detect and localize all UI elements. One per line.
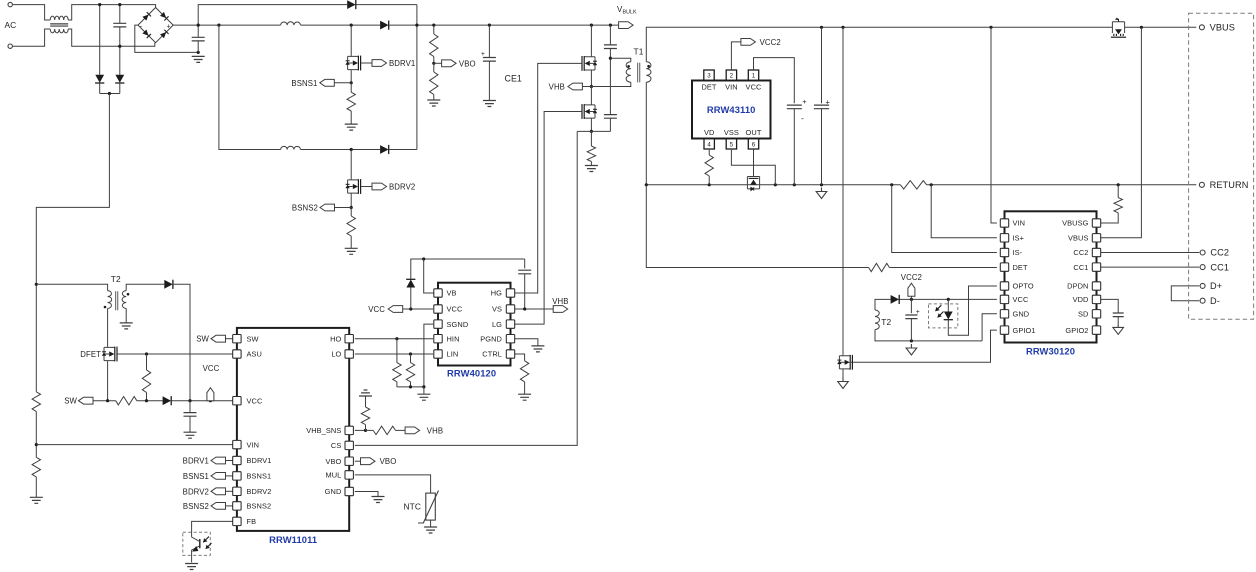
svg-text:HIN: HIN: [447, 334, 460, 343]
svg-text:FB: FB: [247, 517, 257, 526]
svg-text:BDRV1: BDRV1: [389, 59, 415, 68]
svg-text:DET: DET: [1013, 263, 1028, 272]
svg-text:T2: T2: [111, 274, 121, 284]
svg-text:-: -: [801, 113, 804, 123]
svg-text:+: +: [166, 23, 170, 30]
svg-text:CC1: CC1: [1073, 263, 1088, 272]
svg-text:OPTO: OPTO: [1013, 282, 1034, 291]
svg-text:NTC: NTC: [403, 502, 421, 512]
svg-text:SW: SW: [64, 397, 77, 406]
svg-text:VB: VB: [447, 289, 457, 298]
svg-text:VBUS: VBUS: [1210, 23, 1235, 33]
svg-text:AC: AC: [5, 20, 17, 30]
svg-text:VHB_SNS: VHB_SNS: [306, 426, 341, 435]
svg-text:BDRV1: BDRV1: [183, 457, 209, 466]
svg-text:CC2: CC2: [1073, 248, 1088, 257]
svg-text:VS: VS: [492, 305, 502, 314]
svg-text:BDRV1: BDRV1: [247, 456, 272, 465]
svg-text:VCC: VCC: [1013, 295, 1029, 304]
svg-text:CE1: CE1: [505, 74, 522, 84]
svg-text:+: +: [802, 97, 807, 106]
svg-text:6: 6: [752, 142, 756, 149]
svg-text:GPIO2: GPIO2: [1065, 326, 1088, 335]
svg-text:HO: HO: [330, 334, 341, 343]
svg-text:BSNS2: BSNS2: [183, 502, 209, 511]
svg-text:GND: GND: [325, 487, 342, 496]
svg-text:+: +: [916, 309, 920, 316]
svg-text:VCC: VCC: [746, 82, 762, 91]
svg-text:BDRV2: BDRV2: [389, 183, 415, 192]
svg-text:1: 1: [752, 73, 756, 80]
svg-text:+: +: [826, 97, 831, 106]
svg-text:VCC2: VCC2: [760, 38, 781, 47]
svg-text:VCC2: VCC2: [901, 273, 922, 282]
svg-text:BSNS1: BSNS1: [291, 79, 317, 88]
svg-text:IS+: IS+: [1013, 234, 1025, 243]
svg-text:CC1: CC1: [1210, 262, 1229, 272]
svg-text:VHB: VHB: [549, 83, 565, 92]
svg-text:LIN: LIN: [447, 350, 459, 359]
svg-text:ASU: ASU: [247, 350, 263, 359]
svg-text:DET: DET: [701, 82, 716, 91]
svg-text:VD: VD: [704, 128, 714, 137]
svg-text:CS: CS: [331, 441, 341, 450]
svg-text:VBO: VBO: [325, 457, 341, 466]
svg-text:BDRV2: BDRV2: [183, 487, 209, 496]
svg-text:LG: LG: [492, 320, 502, 329]
svg-text:CC2: CC2: [1210, 248, 1229, 258]
svg-text:VIN: VIN: [247, 440, 260, 449]
svg-text:VIN: VIN: [725, 82, 738, 91]
svg-text:BSNS1: BSNS1: [183, 472, 209, 481]
svg-text:4: 4: [707, 142, 711, 149]
svg-text:PGND: PGND: [480, 334, 502, 343]
svg-text:GND: GND: [1013, 310, 1030, 319]
svg-text:SGND: SGND: [447, 320, 469, 329]
svg-text:VIN: VIN: [1013, 219, 1026, 228]
svg-text:VBO: VBO: [380, 457, 397, 466]
svg-text:T1: T1: [634, 46, 644, 56]
svg-text:VCC: VCC: [247, 396, 263, 405]
svg-text:DPDN: DPDN: [1067, 282, 1088, 291]
svg-text:VCC: VCC: [368, 305, 385, 314]
svg-text:VSS: VSS: [724, 128, 739, 137]
svg-text:VCC: VCC: [203, 364, 220, 373]
svg-text:3: 3: [707, 73, 711, 80]
svg-text:VDD: VDD: [1073, 295, 1089, 304]
svg-text:RRW43110: RRW43110: [707, 104, 756, 115]
svg-text:2: 2: [730, 73, 734, 80]
svg-text:D+: D+: [1210, 281, 1222, 291]
svg-text:GPIO1: GPIO1: [1013, 326, 1036, 335]
svg-text:RRW40120: RRW40120: [447, 368, 496, 379]
svg-text:D-: D-: [1210, 296, 1220, 306]
svg-text:SW: SW: [196, 335, 209, 344]
svg-text:VCC: VCC: [447, 305, 463, 314]
svg-text:VBUS: VBUS: [1068, 234, 1089, 243]
svg-text:T2: T2: [881, 317, 891, 327]
svg-text:BSNS2: BSNS2: [292, 204, 318, 213]
svg-text:VHB: VHB: [552, 297, 568, 306]
svg-text:SD: SD: [1078, 310, 1088, 319]
svg-text:CTRL: CTRL: [482, 350, 502, 359]
svg-text:RRW30120: RRW30120: [1026, 346, 1075, 357]
svg-text:BDRV2: BDRV2: [247, 487, 272, 496]
svg-text:IS-: IS-: [1013, 248, 1023, 257]
svg-text:RETURN: RETURN: [1210, 180, 1249, 190]
svg-text:SW: SW: [247, 334, 259, 343]
svg-text:VBO: VBO: [459, 59, 476, 68]
svg-text:MUL: MUL: [325, 471, 341, 480]
svg-text:OUT: OUT: [746, 128, 762, 137]
svg-text:BSNS1: BSNS1: [247, 472, 272, 481]
svg-text:HG: HG: [491, 289, 502, 298]
svg-text:BSNS2: BSNS2: [247, 502, 272, 511]
svg-text:5: 5: [730, 142, 734, 149]
svg-text:DFET: DFET: [80, 350, 101, 359]
svg-text:LO: LO: [331, 350, 341, 359]
svg-text:VHB: VHB: [427, 426, 443, 435]
svg-text:RRW11011: RRW11011: [269, 534, 317, 545]
svg-text:+: +: [481, 51, 485, 58]
svg-text:VBUSG: VBUSG: [1062, 219, 1089, 228]
